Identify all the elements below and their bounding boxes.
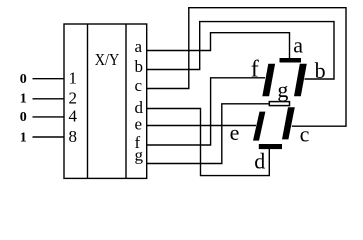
svg-text:c: c — [300, 121, 310, 146]
wire input 2 — [33, 98, 65, 100]
svg-text:2: 2 — [69, 89, 78, 108]
svg-text:g: g — [277, 77, 288, 102]
svg-text:1: 1 — [69, 68, 78, 87]
segment f — [262, 64, 275, 97]
svg-text:a: a — [135, 37, 143, 56]
segment g — [269, 102, 289, 106]
svg-text:4: 4 — [69, 107, 78, 126]
svg-text:X/Y: X/Y — [95, 50, 120, 69]
svg-text:1: 1 — [20, 92, 27, 107]
svg-text:0: 0 — [20, 110, 27, 125]
svg-text:e: e — [230, 120, 240, 145]
wire f — [147, 78, 265, 145]
svg-text:1: 1 — [20, 130, 27, 145]
svg-text:b: b — [135, 57, 144, 76]
wire a — [147, 33, 290, 58]
svg-text:d: d — [254, 149, 265, 174]
wire input 1 — [33, 78, 65, 80]
segment c — [282, 107, 295, 139]
wire d — [147, 109, 269, 176]
wire input 8 — [33, 136, 65, 138]
svg-text:e: e — [135, 115, 143, 134]
segment e — [253, 112, 265, 141]
segment d — [259, 144, 282, 149]
wire b — [147, 22, 334, 79]
svg-text:f: f — [251, 57, 259, 83]
wire c — [147, 8, 346, 127]
segment a — [280, 58, 302, 63]
segment b — [294, 64, 307, 97]
decoder output column divider — [125, 24, 127, 178]
svg-text:8: 8 — [69, 127, 78, 146]
wire g — [147, 104, 270, 164]
decoder U1 box — [64, 24, 147, 178]
wire input 4 — [33, 116, 65, 118]
svg-text:0: 0 — [20, 72, 27, 87]
svg-text:a: a — [293, 32, 303, 57]
wire e — [147, 125, 256, 127]
svg-text:c: c — [135, 76, 143, 95]
svg-text:b: b — [315, 58, 326, 83]
decoder input column divider — [87, 24, 89, 178]
svg-text:g: g — [135, 146, 144, 165]
